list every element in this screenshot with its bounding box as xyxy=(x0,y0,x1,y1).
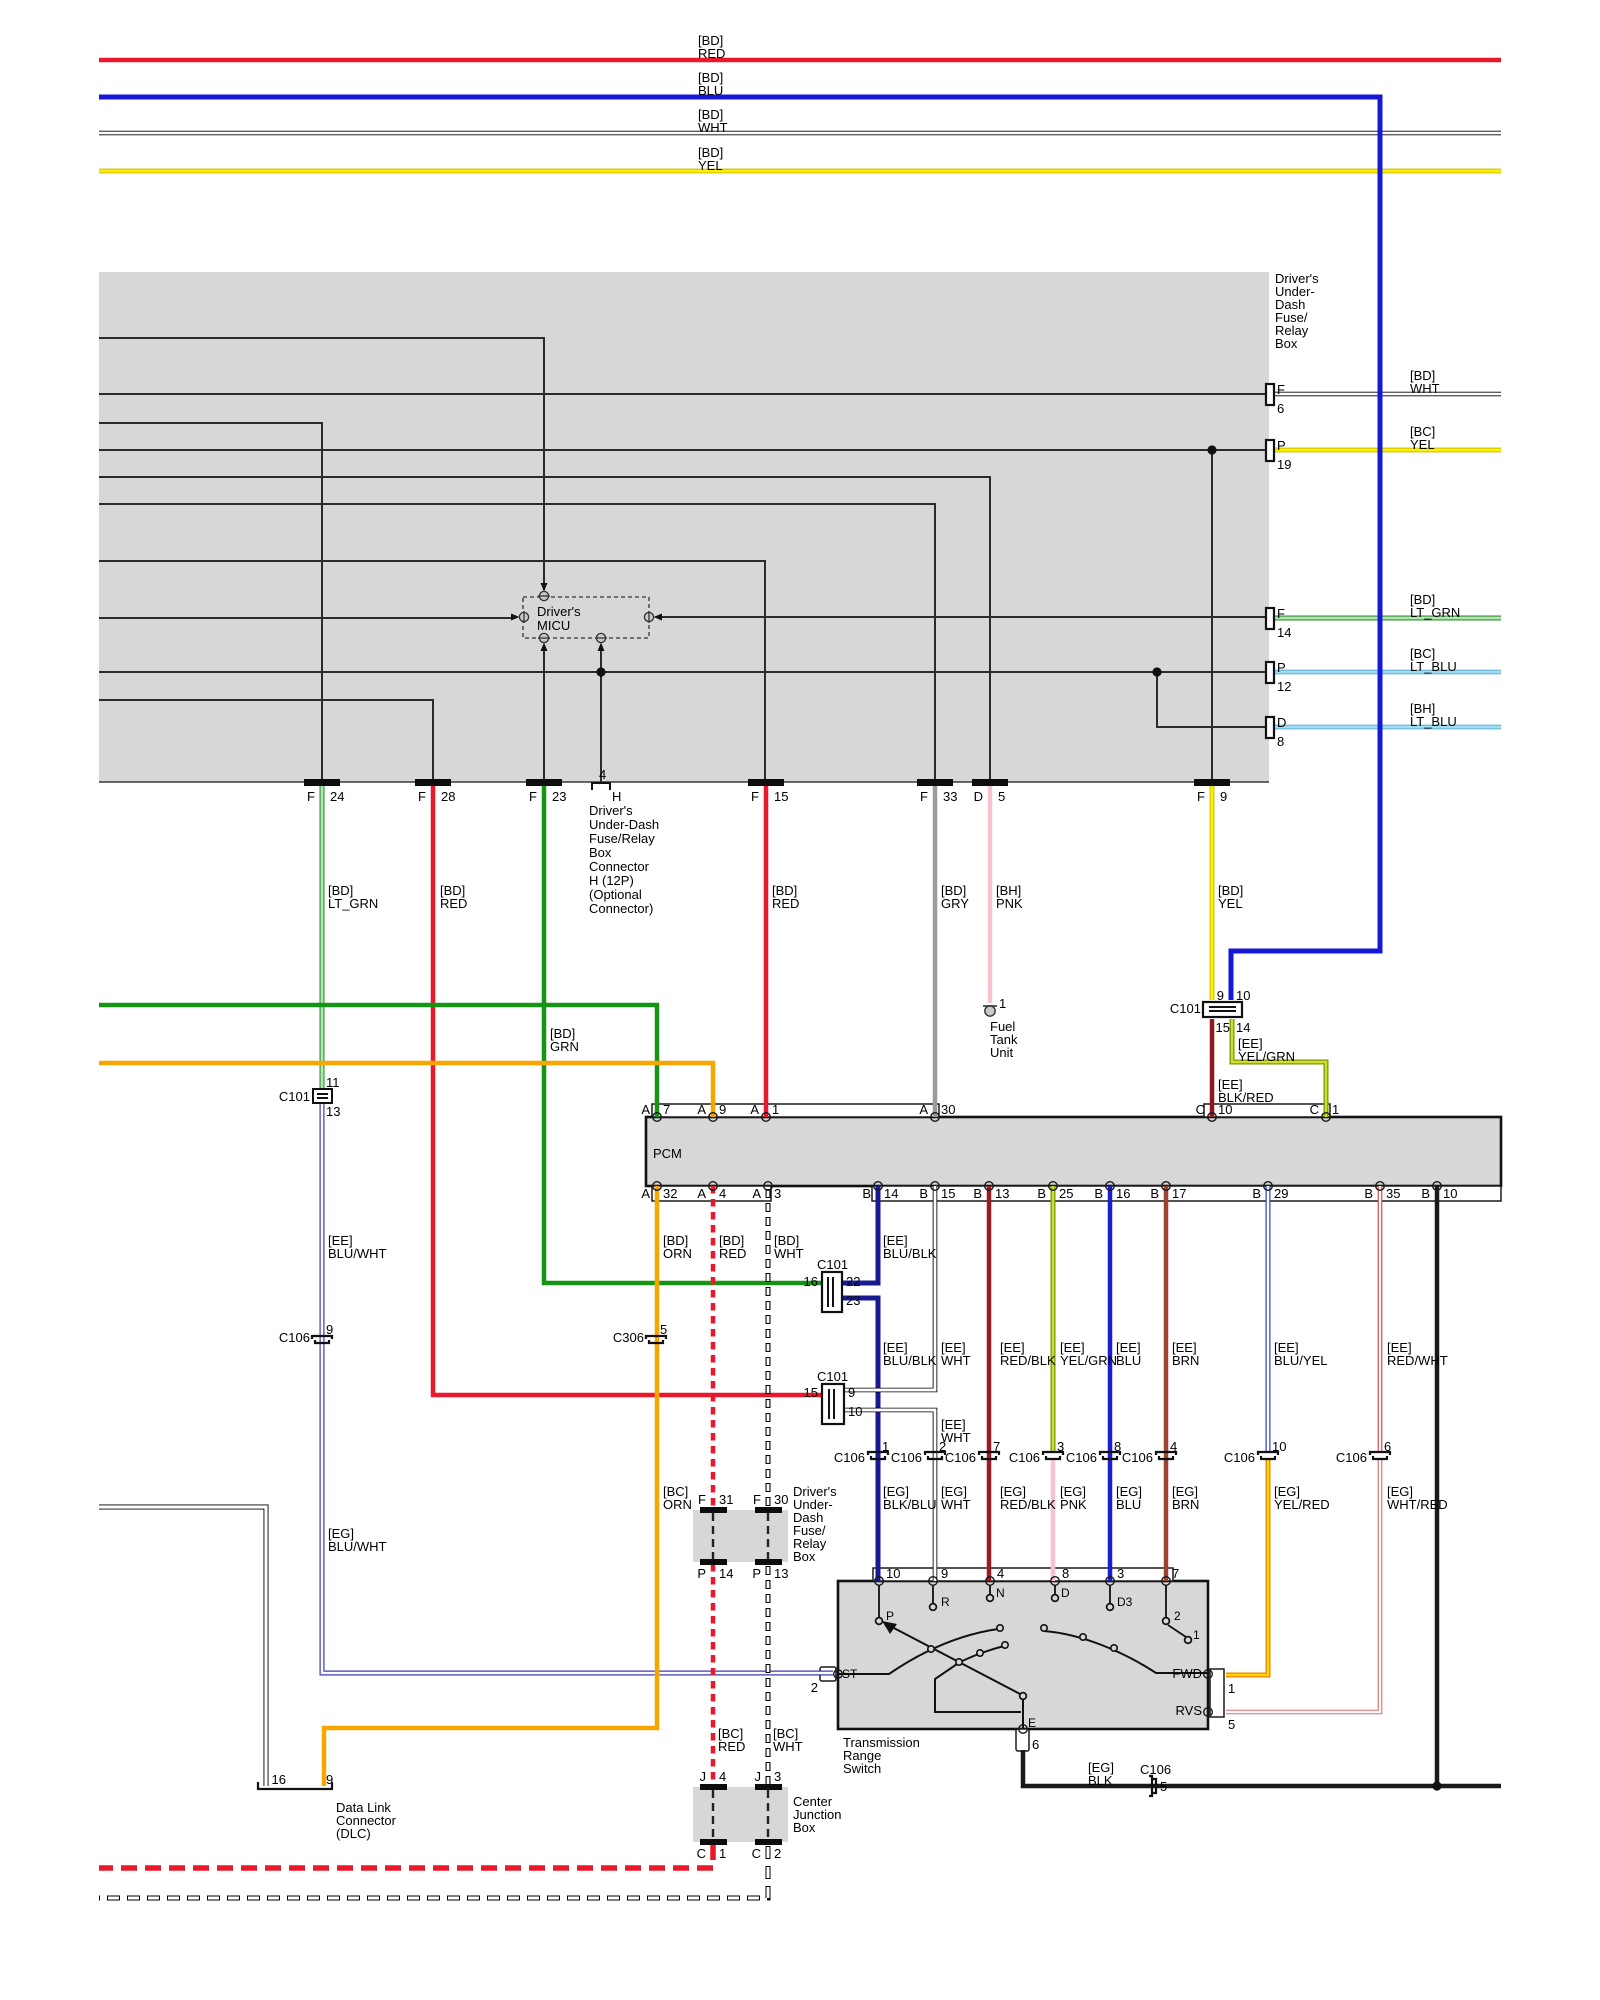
svg-text:30: 30 xyxy=(774,1492,788,1507)
wire [BD] BLU top with vertical drop to C101 xyxy=(99,97,1380,1000)
switch pin 7 xyxy=(1162,1577,1171,1586)
svg-text:A: A xyxy=(750,1102,759,1117)
connector C106 8 xyxy=(1100,1452,1120,1459)
svg-text:5: 5 xyxy=(1228,1717,1235,1732)
wire [BD] RED from F28 down then right to C101 15 xyxy=(433,784,822,1395)
switch contact circle D3 xyxy=(1107,1604,1114,1611)
connector F33 bar xyxy=(917,779,953,786)
switch contact circle R xyxy=(930,1604,937,1611)
svg-text:YEL/GRN: YEL/GRN xyxy=(1060,1353,1117,1368)
svg-text:YEL/RED: YEL/RED xyxy=(1274,1497,1330,1512)
connector C106 4 xyxy=(1156,1452,1176,1459)
svg-text:29: 29 xyxy=(1274,1186,1288,1201)
connector C106 9 xyxy=(312,1336,332,1343)
bus wire branch to F9 xyxy=(1211,450,1213,780)
PCM pin A1 xyxy=(762,1113,771,1122)
svg-text:2: 2 xyxy=(774,1846,781,1861)
svg-text:F: F xyxy=(1197,789,1205,804)
wire [BD] GRN horizontal to PCM A7 xyxy=(99,1005,657,1117)
wire [EE] RED/BLK PCM B13 down to switch 4 xyxy=(987,1186,992,1581)
PCM pin A30 xyxy=(931,1113,940,1122)
svg-text:B: B xyxy=(1252,1186,1261,1201)
svg-text:C106: C106 xyxy=(834,1450,865,1465)
svg-text:RED/WHT: RED/WHT xyxy=(1387,1353,1448,1368)
svg-text:10: 10 xyxy=(886,1566,900,1581)
svg-text:B: B xyxy=(1150,1186,1159,1201)
wire [BD] YEL top xyxy=(99,169,1501,174)
switch contact drop N xyxy=(989,1585,991,1594)
svg-text:15: 15 xyxy=(1216,1020,1230,1035)
svg-text:C: C xyxy=(1310,1102,1319,1117)
wire [BC] RED dashed P14 down to J4 xyxy=(711,1564,716,1786)
svg-text:A: A xyxy=(919,1102,928,1117)
connector F6 xyxy=(1266,384,1274,405)
connector F15 bar xyxy=(748,779,784,786)
switch E drop xyxy=(1022,1699,1024,1729)
switch crossing circle c xyxy=(977,1650,983,1656)
svg-text:WHT: WHT xyxy=(774,1246,804,1261)
svg-text:J: J xyxy=(755,1769,762,1784)
svg-text:F: F xyxy=(307,789,315,804)
svg-text:B: B xyxy=(1364,1186,1373,1201)
switch FWD arm arc xyxy=(1044,1631,1208,1673)
svg-text:C106: C106 xyxy=(1224,1450,1255,1465)
PCM pin B14 xyxy=(874,1182,883,1191)
switch contact circle d xyxy=(1002,1642,1008,1648)
switch ST arm arc xyxy=(838,1629,998,1674)
svg-text:12: 12 xyxy=(1277,679,1291,694)
wire [BD] ORN horizontal to PCM A9 xyxy=(99,1063,713,1117)
svg-text:3: 3 xyxy=(774,1186,781,1201)
svg-text:BLK: BLK xyxy=(1088,1773,1113,1788)
svg-text:(Optional: (Optional xyxy=(589,887,642,902)
svg-text:D: D xyxy=(974,789,983,804)
driver's under-dash fuse/relay box (small) xyxy=(693,1510,788,1562)
switch crossing circle b xyxy=(956,1659,962,1665)
svg-text:1: 1 xyxy=(719,1846,726,1861)
switch pin ST xyxy=(834,1670,843,1679)
svg-text:BRN: BRN xyxy=(1172,1353,1199,1368)
svg-text:LT_BLU: LT_BLU xyxy=(1410,714,1457,729)
svg-text:WHT/RED: WHT/RED xyxy=(1387,1497,1448,1512)
svg-text:BLU/BLK: BLU/BLK xyxy=(883,1353,937,1368)
svg-text:BLU: BLU xyxy=(1116,1353,1141,1368)
bus wire L1 to MICU top xyxy=(99,338,544,590)
svg-text:1: 1 xyxy=(1332,1102,1339,1117)
wire [BD] LT_GRN from F24 down to C101 xyxy=(320,784,325,1091)
svg-text:WHT: WHT xyxy=(941,1353,971,1368)
transmission range switch box xyxy=(838,1581,1208,1729)
svg-text:B: B xyxy=(862,1186,871,1201)
svg-text:10: 10 xyxy=(848,1404,862,1419)
svg-text:33: 33 xyxy=(943,789,957,804)
svg-text:9: 9 xyxy=(1220,789,1227,804)
wire [EG] WHT/RED C106 6 down to switch RVS xyxy=(1226,1458,1380,1712)
svg-text:9: 9 xyxy=(941,1566,948,1581)
wire [EE] WHT C101 10 down to switch 9 xyxy=(845,1410,935,1581)
svg-text:1: 1 xyxy=(772,1102,779,1117)
svg-text:PNK: PNK xyxy=(996,896,1023,911)
svg-text:F: F xyxy=(698,1492,706,1507)
svg-text:MICU: MICU xyxy=(537,618,570,633)
svg-text:4: 4 xyxy=(599,767,606,782)
svg-text:D3: D3 xyxy=(1117,1595,1133,1609)
wire [BH] PNK from D5 down to fuel tank unit xyxy=(988,784,993,1003)
svg-text:9: 9 xyxy=(326,1322,333,1337)
wire [EG] PNK C106 3 down to switch 8 xyxy=(1051,1458,1056,1581)
bus wire L4 to P19 xyxy=(99,449,1267,451)
svg-text:16: 16 xyxy=(804,1274,818,1289)
wire [BD] RED from F15 down to PCM A1 xyxy=(764,784,769,1117)
svg-text:P: P xyxy=(752,1566,761,1581)
svg-text:13: 13 xyxy=(326,1104,340,1119)
wire [EE] YEL/GRN PCM B25 to C106 3 xyxy=(1051,1186,1056,1452)
MICU pin bottom 1 xyxy=(538,633,550,651)
connector P14 bar xyxy=(700,1559,727,1565)
svg-text:H (12P): H (12P) xyxy=(589,873,634,888)
svg-text:C106: C106 xyxy=(945,1450,976,1465)
svg-text:C: C xyxy=(697,1846,706,1861)
connector H bracket xyxy=(592,783,610,790)
svg-text:D: D xyxy=(1061,1586,1070,1600)
svg-text:13: 13 xyxy=(995,1186,1009,1201)
svg-text:7: 7 xyxy=(663,1102,670,1117)
svg-text:10: 10 xyxy=(1272,1439,1286,1454)
svg-text:B: B xyxy=(919,1186,928,1201)
connector P12 xyxy=(1266,662,1274,683)
PCM pin B17 xyxy=(1162,1182,1171,1191)
switch pin E xyxy=(1019,1725,1028,1734)
wire [EG] YEL/RED C106 10 down to switch FWD xyxy=(1226,1458,1268,1675)
wire [BD] WHT top xyxy=(99,131,1501,136)
svg-text:B: B xyxy=(1094,1186,1103,1201)
wire [BC] WHT dashed P13 down to J3 xyxy=(766,1566,771,1786)
bus wire L10 to F28 xyxy=(99,700,433,780)
svg-text:C101: C101 xyxy=(1170,1001,1201,1016)
svg-text:BLK/BLU: BLK/BLU xyxy=(883,1497,936,1512)
PCM bottom connector bracket B xyxy=(872,1186,1501,1201)
svg-text:Fuse/Relay: Fuse/Relay xyxy=(589,831,655,846)
wire [EE] BRN PCM B17 down to switch 7 xyxy=(1164,1186,1169,1581)
svg-text:PNK: PNK xyxy=(1060,1497,1087,1512)
PCM pin B35 xyxy=(1376,1182,1385,1191)
switch E connector xyxy=(1016,1729,1029,1751)
svg-text:R: R xyxy=(941,1595,950,1609)
switch contact circle D xyxy=(1052,1595,1059,1602)
svg-text:Box: Box xyxy=(793,1549,816,1564)
PCM pin A32 xyxy=(653,1182,662,1191)
bus wire L6 to F33 xyxy=(99,504,935,780)
svg-text:9: 9 xyxy=(848,1385,855,1400)
svg-text:8: 8 xyxy=(1114,1439,1121,1454)
svg-text:35: 35 xyxy=(1386,1186,1400,1201)
svg-text:C106: C106 xyxy=(1122,1450,1153,1465)
PCM pin B10 xyxy=(1433,1182,1442,1191)
svg-text:C106: C106 xyxy=(1336,1450,1367,1465)
svg-text:C106: C106 xyxy=(891,1450,922,1465)
svg-text:15: 15 xyxy=(941,1186,955,1201)
switch contact circle P xyxy=(876,1618,883,1625)
svg-text:7: 7 xyxy=(993,1439,1000,1454)
PCM bottom connector bracket A xyxy=(652,1186,771,1201)
wire [BC] WHT dashed from C2 to left edge xyxy=(99,1846,768,1898)
svg-text:ST: ST xyxy=(842,1667,858,1681)
svg-text:24: 24 xyxy=(330,789,344,804)
connector F28 bar xyxy=(415,779,451,786)
bus wire F23 rise to MICU pin1 xyxy=(543,646,545,780)
wire dashed black inside junction box J3-C2 xyxy=(767,1790,769,1840)
svg-text:WHT: WHT xyxy=(941,1497,971,1512)
PCM pin A4 xyxy=(709,1182,718,1191)
switch contact circle 1 xyxy=(1185,1637,1192,1644)
svg-text:16: 16 xyxy=(272,1772,286,1787)
svg-text:Box: Box xyxy=(793,1820,816,1835)
svg-text:ORN: ORN xyxy=(663,1497,692,1512)
svg-text:J: J xyxy=(700,1769,707,1784)
svg-text:F: F xyxy=(529,789,537,804)
wire [BD] RED dashed PCM A4 down to F31 xyxy=(711,1186,716,1508)
switch ST connector xyxy=(820,1667,836,1681)
wire WHT double line to DLC 16 xyxy=(99,1507,266,1786)
connector J4 bar xyxy=(700,1784,727,1790)
svg-text:Box: Box xyxy=(589,845,612,860)
svg-text:22: 22 xyxy=(846,1274,860,1289)
svg-text:RED/BLK: RED/BLK xyxy=(1000,1497,1056,1512)
svg-text:8: 8 xyxy=(1062,1566,1069,1581)
svg-text:6: 6 xyxy=(1384,1439,1391,1454)
switch pin FWD xyxy=(1204,1670,1213,1679)
svg-text:F: F xyxy=(1277,606,1285,621)
svg-text:3: 3 xyxy=(774,1769,781,1784)
svg-text:C106: C106 xyxy=(1009,1450,1040,1465)
wire [EE] RED/WHT PCM B35 to C106 6 xyxy=(1378,1186,1383,1452)
svg-text:BLU/YEL: BLU/YEL xyxy=(1274,1353,1327,1368)
bus wire L3 to F24 xyxy=(99,423,322,780)
switch arc circle f xyxy=(1111,1645,1117,1651)
svg-text:A: A xyxy=(697,1102,706,1117)
svg-text:32: 32 xyxy=(663,1186,677,1201)
connector C106 3 xyxy=(1043,1452,1063,1459)
connector J3 bar xyxy=(755,1784,782,1790)
switch lower arm polyline xyxy=(935,1646,1021,1712)
connector F30 bar xyxy=(755,1507,782,1513)
wire [EE] BLU PCM B16 down to switch 3 xyxy=(1108,1186,1113,1581)
svg-text:30: 30 xyxy=(941,1102,955,1117)
svg-text:Box: Box xyxy=(1275,336,1298,351)
PCM box xyxy=(646,1117,1501,1186)
svg-text:6: 6 xyxy=(1277,401,1284,416)
connector F31 bar xyxy=(700,1507,727,1513)
wire [BC] YEL from P19 xyxy=(1274,448,1501,453)
svg-text:RED: RED xyxy=(772,896,799,911)
switch FWD/RVS connector bracket xyxy=(1210,1669,1224,1717)
svg-text:Connector: Connector xyxy=(589,859,650,874)
svg-text:C306: C306 xyxy=(613,1330,644,1345)
svg-text:19: 19 xyxy=(1277,457,1291,472)
svg-text:BLU/WHT: BLU/WHT xyxy=(328,1246,387,1261)
svg-text:P: P xyxy=(1277,660,1286,675)
svg-text:RED: RED xyxy=(698,46,725,61)
svg-text:RED: RED xyxy=(440,896,467,911)
connector C101 11/13 xyxy=(313,1089,332,1103)
PCM pin B29 xyxy=(1264,1182,1273,1191)
connector F23 bar xyxy=(526,779,562,786)
svg-text:C101: C101 xyxy=(279,1089,310,1104)
svg-text:8: 8 xyxy=(1277,734,1284,749)
wire [BD] ORN PCM A32 down to DLC 9 xyxy=(324,1186,657,1786)
connector F9 bar xyxy=(1194,779,1230,786)
switch crossing circle a xyxy=(928,1646,934,1652)
svg-text:1: 1 xyxy=(1193,1628,1200,1642)
wire [BD] WHT dashed PCM A3 down to F30 xyxy=(766,1189,771,1508)
connector C106 2 xyxy=(925,1452,945,1459)
bus wire L7 to F15 xyxy=(99,561,765,780)
connector C101 16/22,23 xyxy=(822,1272,842,1312)
svg-text:P: P xyxy=(886,1609,894,1623)
switch contact circle E xyxy=(1020,1693,1027,1700)
MICU pin right xyxy=(644,611,662,623)
wire [BD] LT_GRN from F14 xyxy=(1274,616,1501,621)
svg-text:Switch: Switch xyxy=(843,1761,881,1776)
svg-text:P: P xyxy=(1277,438,1286,453)
connector C306 5 xyxy=(646,1336,666,1343)
connector C106 7 xyxy=(979,1452,999,1459)
MICU pin top xyxy=(538,583,550,601)
wire [BD] GRN from F23 down then right to C101 16 xyxy=(544,784,822,1283)
svg-text:9: 9 xyxy=(1217,988,1224,1003)
svg-text:28: 28 xyxy=(441,789,455,804)
driver's under-dash fuse/relay box (main) xyxy=(99,272,1269,782)
junction P19/F9 xyxy=(1207,445,1216,454)
svg-text:F: F xyxy=(920,789,928,804)
svg-text:C: C xyxy=(1196,1102,1205,1117)
PCM pin C10 xyxy=(1208,1113,1217,1122)
bus wire L8 to MICU left pin xyxy=(99,617,515,619)
connector P19 xyxy=(1266,440,1274,461)
svg-text:E: E xyxy=(1028,1716,1036,1730)
svg-text:YEL: YEL xyxy=(1410,437,1435,452)
svg-text:WHT: WHT xyxy=(773,1739,803,1754)
switch selector arm E to P with arrow xyxy=(882,1621,1022,1695)
wire [EE] YEL/GRN C101 14 to PCM C1 xyxy=(1232,1019,1326,1117)
wire dashed black inside junction box J4-C1 xyxy=(712,1790,714,1840)
svg-text:15: 15 xyxy=(804,1385,818,1400)
svg-text:PCM: PCM xyxy=(653,1146,682,1161)
wire [EE] BLK PCM B10 down to ground bus xyxy=(1435,1186,1440,1786)
driver's MICU dashed box xyxy=(523,597,649,638)
PCM pin B15 xyxy=(931,1182,940,1191)
switch top connector bracket xyxy=(873,1568,1173,1581)
svg-text:9: 9 xyxy=(719,1102,726,1117)
svg-text:B: B xyxy=(1421,1186,1430,1201)
svg-text:WHT: WHT xyxy=(1410,381,1440,396)
connector C101 15/9,10 xyxy=(822,1384,844,1424)
wire [EE] BLU/YEL PCM B29 to C106 10 xyxy=(1266,1186,1271,1452)
PCM pin B13 xyxy=(985,1182,994,1191)
connector P13 bar xyxy=(755,1559,782,1565)
svg-text:RED: RED xyxy=(718,1739,745,1754)
svg-text:LT_GRN: LT_GRN xyxy=(328,896,378,911)
center junction box xyxy=(693,1787,788,1842)
svg-text:4: 4 xyxy=(1170,1439,1177,1454)
svg-text:31: 31 xyxy=(719,1492,733,1507)
svg-text:10: 10 xyxy=(1443,1186,1457,1201)
bus wire MICU pin2 drop to connector H xyxy=(600,646,602,783)
svg-text:FWD: FWD xyxy=(1172,1666,1202,1681)
svg-text:BLU: BLU xyxy=(1116,1497,1141,1512)
svg-text:RED: RED xyxy=(719,1246,746,1261)
wire [BC] RED dashed from C1 to left edge xyxy=(99,1844,713,1868)
svg-text:7: 7 xyxy=(1172,1566,1179,1581)
wire [EE] BLU/WHT C101 13 down to switch ST xyxy=(322,1101,833,1673)
switch contact circle 2 xyxy=(1163,1618,1170,1625)
svg-text:C106: C106 xyxy=(279,1330,310,1345)
PCM top connector bracket A xyxy=(652,1104,939,1117)
svg-text:14: 14 xyxy=(1236,1020,1250,1035)
svg-text:3: 3 xyxy=(1057,1439,1064,1454)
MICU pin bottom 2 xyxy=(595,633,607,651)
svg-text:WHT: WHT xyxy=(698,120,728,135)
switch contact drop R xyxy=(932,1585,934,1603)
svg-text:11: 11 xyxy=(326,1075,340,1090)
wire [BD] YEL from F9 down to C101 9 xyxy=(1210,784,1215,1000)
svg-text:C101: C101 xyxy=(817,1257,848,1272)
svg-text:1: 1 xyxy=(999,996,1006,1011)
svg-text:C: C xyxy=(752,1846,761,1861)
svg-text:13: 13 xyxy=(774,1566,788,1581)
svg-text:YEL: YEL xyxy=(698,158,723,173)
PCM pin A7 xyxy=(653,1113,662,1122)
switch contact circle arc end xyxy=(997,1625,1003,1631)
svg-text:GRY: GRY xyxy=(941,896,969,911)
connector F24 bar xyxy=(304,779,340,786)
svg-text:F: F xyxy=(751,789,759,804)
connector C1 bar xyxy=(700,1839,727,1845)
connector C106 10 xyxy=(1258,1452,1278,1459)
svg-text:B: B xyxy=(1037,1186,1046,1201)
svg-text:3: 3 xyxy=(1117,1566,1124,1581)
wire [EE] BLK/RED C101 15 to PCM C10 xyxy=(1210,1019,1215,1117)
PCM pin C1 xyxy=(1322,1113,1331,1122)
connector F14 xyxy=(1266,608,1274,629)
svg-text:Under-Dash: Under-Dash xyxy=(589,817,659,832)
connector C2 bar xyxy=(755,1839,782,1845)
svg-text:N: N xyxy=(996,1586,1005,1600)
svg-text:Driver's: Driver's xyxy=(537,604,581,619)
svg-text:Connector): Connector) xyxy=(589,901,653,916)
svg-text:A: A xyxy=(641,1102,650,1117)
junction L9/MICU pin2 xyxy=(596,667,605,676)
svg-text:2: 2 xyxy=(1174,1609,1181,1623)
svg-text:H: H xyxy=(612,789,621,804)
svg-text:BLU/WHT: BLU/WHT xyxy=(328,1539,387,1554)
svg-text:1: 1 xyxy=(882,1439,889,1454)
svg-text:25: 25 xyxy=(1059,1186,1073,1201)
fuel tank unit pin 1 xyxy=(983,1006,997,1016)
switch contact drop D3 xyxy=(1109,1585,1111,1603)
svg-text:F: F xyxy=(753,1492,761,1507)
wire [BD] WHT from F6 xyxy=(1274,392,1501,397)
svg-text:5: 5 xyxy=(1160,1779,1167,1794)
bus wire L9 to P12 xyxy=(99,671,1267,673)
wire [EE] WHT PCM B15 to C101 9 xyxy=(845,1186,935,1390)
svg-text:14: 14 xyxy=(1277,625,1291,640)
PCM pin A3 xyxy=(764,1182,773,1191)
svg-text:1: 1 xyxy=(1228,1681,1235,1696)
wire [BC] LT_BLU from P12 xyxy=(1274,670,1501,675)
switch pin 3 xyxy=(1106,1577,1115,1586)
svg-text:BLU/BLK: BLU/BLK xyxy=(883,1246,937,1261)
